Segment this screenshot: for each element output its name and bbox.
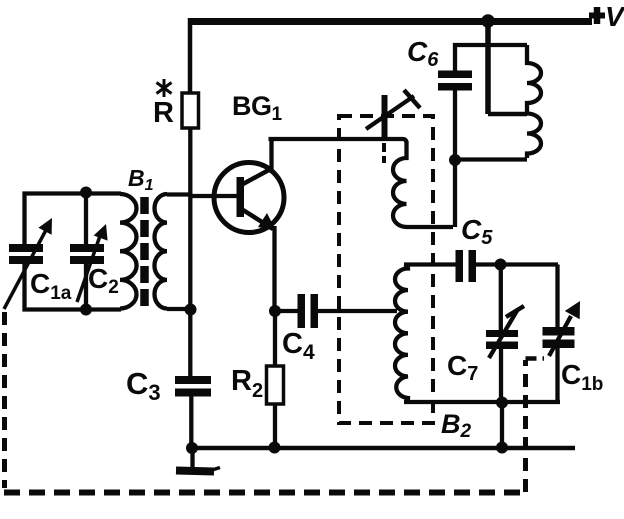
- wire collector up: [269, 139, 273, 170]
- svg-text:C1b: C1b: [561, 359, 603, 395]
- wire C7 branch top: [499, 265, 503, 331]
- svg-text:R2: R2: [231, 365, 263, 402]
- svg-text:C5: C5: [461, 214, 493, 249]
- node R2 bottom: [269, 442, 281, 454]
- wire C1b branch bottom: [555, 348, 559, 402]
- B1 primary coil: [120, 194, 137, 309]
- node C5/C7: [495, 259, 507, 271]
- capacitor C1a plates: [9, 244, 43, 252]
- svg-text:V: V: [605, 1, 624, 32]
- svg-text:C6: C6: [407, 36, 439, 71]
- wire C6 bottom to y227 corner: [453, 90, 457, 227]
- trimmer stub dashes: [382, 143, 386, 163]
- svg-text:B2: B2: [441, 409, 472, 442]
- svg-text:C3: C3: [126, 366, 161, 405]
- resistor R: [182, 93, 199, 128]
- capacitor C4: [298, 294, 306, 328]
- wire rail corner down to R: [188, 18, 193, 93]
- wire C3 to ground node: [189, 395, 193, 449]
- svg-text:R: R: [153, 97, 174, 129]
- trimmer arrow: [366, 96, 414, 129]
- wire R2 to ground rail: [273, 404, 277, 448]
- capacitor C2 plates: [70, 244, 104, 252]
- node B1 bottom: [185, 304, 197, 316]
- wire R to C3 (left vertical): [188, 128, 192, 378]
- wire +V tap horizontal: [488, 112, 527, 117]
- capacitor C3 plates: [175, 376, 211, 384]
- B2 primary coil (upper): [393, 141, 407, 227]
- wire emitter node to C4: [275, 309, 298, 313]
- wire tank bottom to ground rail: [500, 403, 504, 449]
- C7 arrow: [489, 309, 518, 358]
- asterisk for R: [157, 79, 172, 97]
- B1 secondary coil: [154, 194, 167, 309]
- wire top-left tank (C1a top to B1): [25, 194, 122, 246]
- node emitter junction: [269, 305, 281, 317]
- wire +V tap vertical: [485, 21, 491, 114]
- +V supply rail: [188, 18, 592, 25]
- svg-text:C1a: C1a: [30, 268, 72, 304]
- wire C5 to C1b corner: [476, 262, 558, 266]
- wire B2 lower coil top to C5: [404, 262, 456, 266]
- gang dashed line right vertical: [523, 360, 528, 492]
- transistor BG1: [190, 163, 284, 233]
- node ground: [186, 442, 198, 454]
- wire emitter down: [272, 226, 276, 311]
- antenna coil (top right): [527, 45, 541, 158]
- wire collector horizontal to B2: [269, 139, 407, 143]
- gang dashed line bottom: [4, 490, 526, 496]
- wire node B to antenna coil bottom: [455, 157, 527, 161]
- node C2 bottom: [80, 304, 92, 316]
- svg-text:C2: C2: [88, 263, 119, 298]
- wire B1 secondary bottom to left rail: [167, 307, 191, 311]
- +V label: [594, 7, 601, 24]
- node C2 top: [80, 187, 92, 199]
- wire tank top (C6 top to coil top): [455, 45, 527, 71]
- wire C2 branch bottom: [84, 263, 88, 309]
- wire B2 upper coil bottom to node B: [406, 225, 453, 229]
- svg-text:BG1: BG1: [232, 91, 283, 125]
- wire B1 secondary top to base node: [167, 192, 190, 196]
- svg-text:B1: B1: [128, 165, 154, 194]
- capacitor C1b plates: [543, 327, 575, 336]
- wire C2 branch top: [84, 193, 88, 245]
- svg-text:C7: C7: [447, 350, 478, 385]
- C2 arrow: [77, 233, 101, 302]
- gang dashed jog to C1b arrow: [526, 356, 545, 361]
- node B: [449, 154, 461, 166]
- C1a arrow: [4, 230, 46, 309]
- tank bottom wire: [404, 400, 560, 404]
- bottom ground rail: [192, 446, 575, 451]
- wire C1a bottom to B1: [25, 263, 122, 310]
- wire C4 to B2 coil tap: [318, 309, 398, 313]
- ground symbol: [190, 448, 194, 468]
- wire C1b branch top: [555, 265, 559, 328]
- node tank bottom: [496, 397, 508, 409]
- capacitor C5 plates: [456, 250, 464, 282]
- B2 secondary coil (lower): [395, 265, 408, 403]
- B1 core: [140, 197, 149, 308]
- trimmer capacitor plate (top of B2): [382, 95, 388, 138]
- capacitor C7 plates: [486, 330, 518, 337]
- C1b arrow: [549, 316, 571, 356]
- capacitor C6 plates: [438, 71, 472, 79]
- wire node to R2: [273, 311, 277, 366]
- wire C7 branch bottom: [499, 349, 503, 403]
- resistor R2: [267, 366, 284, 404]
- node ground rail right: [496, 442, 508, 454]
- svg-text:C4: C4: [282, 328, 315, 364]
- dashed screen box B2: [339, 116, 433, 423]
- junction +V tap: [481, 14, 495, 28]
- gang dashed line left vertical: [2, 312, 7, 488]
